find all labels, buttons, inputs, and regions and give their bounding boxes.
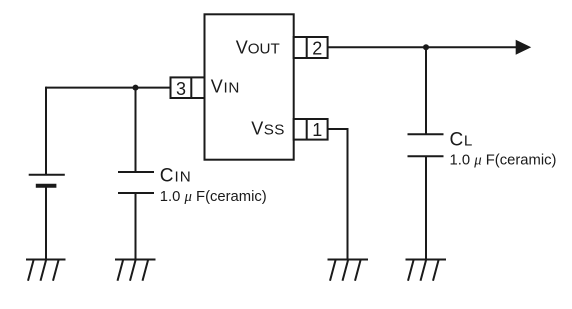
svg-text:VOUT: VOUT: [236, 37, 280, 57]
pin 2 VOUT: [294, 37, 328, 58]
svg-text:CL: CL: [450, 129, 473, 150]
node B junction of VOUT and CL: [423, 44, 429, 50]
wire input horizontal from battery to pin 3: [46, 87, 171, 89]
ground for CL: [406, 260, 447, 281]
wire CIN top vertical: [135, 88, 137, 172]
battery B1: [29, 175, 65, 186]
svg-text:3: 3: [176, 79, 186, 99]
svg-text:1: 1: [312, 120, 322, 140]
wire battery bottom vertical: [45, 188, 47, 260]
capacitor CL: [408, 134, 444, 156]
pin label VIN: [211, 76, 240, 96]
wire CIN bottom vertical: [135, 193, 137, 260]
ground for battery: [26, 260, 66, 281]
svg-text:1.0 μ F(ceramic): 1.0 μ F(ceramic): [450, 152, 557, 168]
pin 3 VIN: [171, 77, 205, 99]
ground for CIN: [115, 260, 156, 281]
wire CL bottom vertical: [425, 156, 427, 259]
pin 1 VSS: [294, 119, 328, 140]
capacitor CIN value label: [160, 166, 267, 206]
ground for VSS: [328, 260, 369, 281]
wire battery top vertical: [45, 87, 47, 175]
svg-text:CIN: CIN: [160, 166, 192, 187]
pin label VSS: [251, 119, 284, 139]
capacitor CL value label: [450, 129, 557, 168]
wire output horizontal: [328, 46, 516, 48]
op-amp U1 regulator IC body: [205, 14, 294, 159]
wire CL top vertical: [425, 47, 427, 133]
output arrow: [516, 40, 532, 55]
svg-text:VSS: VSS: [251, 119, 284, 139]
svg-text:1.0 μ F(ceramic): 1.0 μ F(ceramic): [160, 189, 267, 205]
node A junction of VIN and CIN: [133, 85, 139, 91]
svg-text:VIN: VIN: [211, 76, 240, 96]
capacitor CIN: [118, 172, 154, 193]
pin label VOUT: [236, 37, 280, 57]
wire VSS to ground: [328, 129, 348, 260]
svg-text:2: 2: [312, 38, 322, 58]
